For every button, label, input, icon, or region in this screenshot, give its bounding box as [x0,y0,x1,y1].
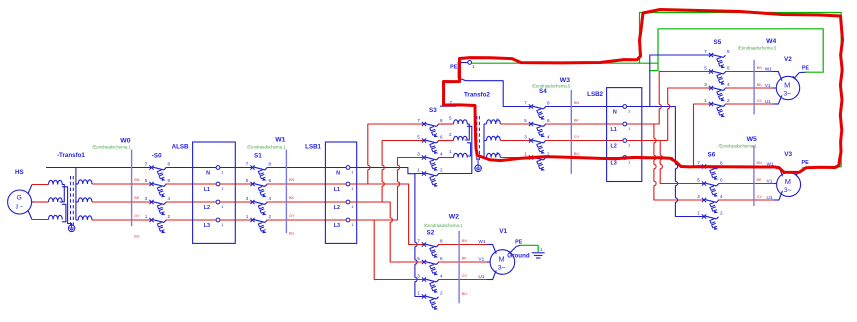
green PE stub near S5 [650,70,658,72]
svg-text:V3: V3 [784,151,792,158]
svg-text:BK: BK [462,256,468,260]
svg-text:LSB1: LSB1 [305,144,321,151]
svg-text:3: 3 [246,196,249,201]
svg-text:GY: GY [757,99,763,103]
svg-text:3~: 3~ [498,264,506,271]
svg-text:3 ~: 3 ~ [16,205,23,211]
svg-text:1: 1 [449,149,452,154]
svg-text:8: 8 [720,160,723,165]
svg-text:2: 2 [720,210,723,215]
svg-text:GY: GY [289,214,295,218]
svg-text:PE: PE [515,239,523,245]
svg-text:/Eendraadschema.1: /Eendraadschema.1 [424,223,463,228]
highlighted cable route (thick red freehand loop) [444,10,843,173]
svg-text:2: 2 [440,167,443,172]
wire neutral N top rail from Transfo1 to ALSB [46,167,152,169]
wires S5 to motor V2 [725,72,782,105]
wire L1 from LSB2 up to S5 row2 and down to S6 row3 [627,72,711,201]
svg-text:L2: L2 [611,144,617,150]
svg-text:3: 3 [145,196,148,201]
svg-text:6: 6 [720,177,723,182]
svg-text:BU: BU [574,152,580,156]
svg-text:1: 1 [417,290,420,295]
svg-text:4: 4 [269,196,272,201]
breaker S6 [697,160,723,230]
svg-text:BN: BN [757,66,763,70]
svg-text:BU: BU [134,235,140,239]
svg-text:N: N [336,171,340,177]
svg-text:W0: W0 [120,138,130,145]
svg-text:3: 3 [496,151,499,156]
svg-text:5: 5 [145,178,148,183]
svg-text:U1: U1 [478,274,484,280]
svg-text:BN: BN [462,239,468,243]
svg-text:1: 1 [246,214,249,219]
svg-text:W5: W5 [747,136,757,143]
wire L2 Transfo1 secondary to S0 [92,201,152,203]
motor V3 [777,151,801,197]
svg-text:Transfo2: Transfo2 [464,92,490,99]
svg-text:1: 1 [524,151,527,156]
svg-text:2: 2 [168,214,171,219]
wire generator to transformer primary L3 [28,210,49,220]
svg-text:8: 8 [269,161,272,166]
transformer T2 Transfo2 [449,92,500,174]
wire generator to transformer primary L2 [32,201,49,203]
svg-text:V1: V1 [765,83,771,89]
terminal ALSB L1 [216,182,220,186]
PE green wire from Transfo2 PE terminal to right section [472,62,659,64]
breaker S2 [417,238,443,309]
svg-text:N: N [206,171,210,177]
wire S3 pole4 to Transfo2 star point [438,173,472,175]
svg-text:5: 5 [449,116,452,121]
wires S6 to motor V3 [718,167,782,201]
wire PE / neutral from Transfo2 star to S4 pole1 [440,63,531,107]
transformer T1 -Transfo1 [49,152,92,228]
svg-text:5: 5 [246,178,249,183]
svg-text:2: 2 [449,132,452,137]
svg-text:GY: GY [462,274,468,278]
svg-text:V1: V1 [478,256,484,262]
svg-text:1: 1 [145,214,148,219]
svg-text:/Eendraadschema.1: /Eendraadschema.1 [247,145,286,150]
svg-text:7: 7 [704,49,707,54]
svg-text:PE: PE [802,65,809,71]
svg-text:BK: BK [289,196,295,200]
V3 terminal labels and PE [767,160,839,201]
svg-text:L1: L1 [334,187,340,193]
breaker S5 [704,49,730,118]
svg-text:3: 3 [704,82,707,87]
svg-text:V1: V1 [499,228,507,235]
svg-text:W1: W1 [478,239,486,245]
wire L3 from LSB2 to S6 row1 and up to S5 row4 [627,104,711,167]
svg-text:4: 4 [440,273,443,278]
wires S4 to LSB2 terminals [545,106,625,108]
wire N from LSB2 up to S5 and down to S6 [627,55,711,217]
svg-text:BU: BU [462,292,468,296]
svg-text:ALSB: ALSB [172,144,189,151]
terminal LSB1 L2 [346,200,350,204]
PE terminal node above Transfo2 [450,61,475,71]
cable marker W2 [424,214,468,304]
wire L2 from LSB1 up to S3 row2 and down to S2 row2 [350,141,424,263]
generator G1 HS [8,169,32,214]
wire L3 Transfo1 secondary to S0 [92,219,152,221]
svg-text:L1: L1 [611,127,617,133]
svg-text:L3: L3 [204,223,210,229]
svg-text:3: 3 [417,273,420,278]
wires S3 to Transfo2 primary [438,123,454,125]
breaker S4 [524,100,550,171]
svg-text:BN: BN [574,101,580,105]
ground node Ground with earth symbol [507,245,544,259]
svg-text:5: 5 [417,134,420,139]
outer green PE loop right section [640,13,842,168]
cable marker W3 [532,77,580,174]
svg-text:7: 7 [417,238,420,243]
ground symbol transformer T1 [68,225,75,232]
terminal LSB1 L3 [346,218,350,222]
svg-text:7: 7 [697,160,700,165]
svg-text:W2: W2 [449,214,459,221]
svg-text:1: 1 [417,167,420,172]
svg-text:3: 3 [417,151,420,156]
svg-text:4: 4 [720,194,723,199]
svg-text:S6: S6 [708,152,716,159]
wires S2 to motor V1 [438,245,496,280]
svg-text:/Eendraadschema.1: /Eendraadschema.1 [92,145,131,150]
svg-text:L1: L1 [204,187,210,193]
svg-text:3~: 3~ [784,187,792,194]
svg-text:W1: W1 [765,66,773,72]
svg-text:L2: L2 [334,205,340,211]
svg-text:8: 8 [440,238,443,243]
wire L3 from LSB1 up to S3 row3 and down to S2 row3 [350,158,424,280]
cable marker W4 [738,38,777,114]
svg-text:4: 4 [547,134,550,139]
svg-text:4: 4 [727,82,730,87]
wires S1 to LSB1 terminals [267,167,349,169]
svg-text:8: 8 [727,49,730,54]
cable marker W1 [247,137,295,236]
svg-text:U1: U1 [765,99,771,105]
svg-text:5: 5 [697,177,700,182]
wire L1 from LSB1 up to S3 row1 and down to S2 row1 [350,124,424,245]
terminal ALSB N [216,166,220,170]
svg-text:GY: GY [757,195,763,199]
svg-text:N: N [613,110,617,116]
wires S0 to ALSB terminals [166,183,219,185]
svg-text:-Transfo1: -Transfo1 [57,152,85,159]
svg-text:S4: S4 [539,88,547,95]
svg-text:/Eendraadschema.5: /Eendraadschema.5 [738,46,777,51]
svg-text:V1: V1 [767,178,773,184]
svg-text:S5: S5 [714,39,722,46]
svg-text:3~: 3~ [783,90,791,97]
svg-text:3: 3 [524,134,527,139]
terminal ALSB L3 [216,218,220,222]
cable marker W5 [718,136,762,206]
svg-text:BK: BK [134,196,140,200]
wire L1 Transfo1 secondary to S0 [92,183,152,185]
svg-text:S2: S2 [427,230,435,237]
terminal LSB2 L2 [623,139,627,143]
svg-text:2: 2 [269,214,272,219]
svg-text:8: 8 [440,118,443,123]
svg-text:1: 1 [704,98,707,103]
svg-text:6: 6 [440,256,443,261]
svg-text:6: 6 [496,118,499,123]
svg-text:8: 8 [168,161,171,166]
distribution box ALSB [172,142,236,243]
svg-text:2: 2 [727,98,730,103]
V2 terminal labels and PE [765,65,810,104]
V3 PE green wire [802,167,838,169]
svg-text:6: 6 [547,118,550,123]
svg-text:6: 6 [269,178,272,183]
svg-text:4: 4 [496,134,499,139]
wire generator to transformer primary L1 [28,185,49,195]
svg-text:5: 5 [524,118,527,123]
svg-text:4: 4 [168,196,171,201]
svg-text:HS: HS [15,169,24,176]
wire N from LSB1 to S3 pole4 and down to S2 [350,168,424,297]
svg-text:BN: BN [289,178,295,182]
svg-text:G: G [17,195,22,202]
svg-text:GY: GY [574,135,580,139]
svg-text:M: M [499,254,505,263]
svg-text:BN: BN [757,161,763,165]
wires ALSB to S1 [220,167,253,169]
svg-text:7: 7 [246,161,249,166]
svg-text:W4: W4 [766,38,776,45]
svg-text:BK: BK [574,118,580,122]
inner green PE bus around S5/V2 [658,29,823,72]
svg-text:U1: U1 [767,195,773,201]
svg-text:PE: PE [450,64,458,70]
svg-text:L3: L3 [611,161,617,167]
terminal LSB2 N [623,105,627,109]
svg-text:/Eendraadschema.5: /Eendraadschema.5 [532,84,571,89]
svg-text:LSB2: LSB2 [587,91,603,98]
svg-text:BK: BK [757,178,763,182]
svg-text:GY: GY [134,214,140,218]
svg-text:6: 6 [168,178,171,183]
distribution box LSB2 [587,88,642,182]
svg-text:S1: S1 [254,153,262,160]
ground symbol transformer T2 [475,159,482,172]
svg-text:6: 6 [727,65,730,70]
breaker S1 [246,161,272,233]
svg-text:7: 7 [417,118,420,123]
cable marker W0 [92,138,140,239]
svg-text:M: M [784,80,790,89]
wires Transfo2 secondary to S4 [500,123,531,125]
wire L2 from LSB2 up to S5 row3 and down to S6 row2 [627,88,711,184]
svg-text:3: 3 [697,194,700,199]
svg-text:S3: S3 [429,107,437,114]
V1 terminal labels and PE [478,239,522,280]
svg-text:L3: L3 [334,223,340,229]
terminal LSB1 N [346,166,350,170]
svg-text:/Eendraadschema.1: /Eendraadschema.1 [718,144,757,149]
svg-text:BU: BU [289,232,295,236]
breaker S3 [417,118,443,187]
svg-text:M: M [785,177,791,186]
distribution box LSB1 [305,142,357,243]
svg-text:7: 7 [145,161,148,166]
breaker -S0 [145,161,171,233]
svg-text:Ground: Ground [507,253,530,260]
svg-text:V2: V2 [784,56,792,63]
svg-text:W1: W1 [275,137,285,144]
svg-text:6: 6 [440,134,443,139]
svg-text:BK: BK [757,83,763,87]
svg-text:8: 8 [547,100,550,105]
motor V1 [490,228,515,274]
terminal ALSB L2 [216,200,220,204]
svg-text:4: 4 [440,151,443,156]
terminal LSB2 L1 [623,122,627,126]
svg-text:BN: BN [134,178,140,182]
svg-text:PE: PE [802,160,810,166]
svg-text:5: 5 [704,65,707,70]
svg-text:L2: L2 [204,205,210,211]
svg-text:1: 1 [697,210,700,215]
motor V2 [776,56,799,100]
svg-text:2: 2 [440,290,443,295]
svg-text:-S0: -S0 [152,153,162,160]
svg-text:7: 7 [524,100,527,105]
terminal LSB2 L3 [623,156,627,160]
terminal LSB1 L1 [346,182,350,186]
svg-text:5: 5 [417,256,420,261]
